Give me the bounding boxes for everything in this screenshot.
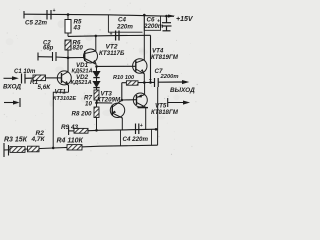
svg-text:КТ3117Б: КТ3117Б: [99, 50, 125, 57]
svg-text:820: 820: [73, 45, 84, 52]
svg-text:4,7К: 4,7К: [31, 136, 46, 143]
resistor R6: [65, 40, 71, 58]
capacitor C1: [22, 74, 34, 84]
diode VD2: [93, 82, 99, 91]
svg-text:C4 220m: C4 220m: [123, 136, 149, 143]
wire: bootstrap column down to output node: [150, 35, 152, 82]
svg-text:+15V: +15V: [176, 16, 194, 23]
terminal: input return arrow: [4, 98, 20, 107]
svg-text:+: +: [157, 19, 160, 25]
transistor VT3: [110, 100, 124, 130]
node: VT4 collector to +15V rail junction: [143, 14, 146, 17]
terminal +15V: [168, 15, 175, 18]
resistor R7: [94, 90, 99, 100]
resistor R4: [67, 145, 82, 150]
node tick: top-left rail end: [23, 11, 25, 19]
wire: VT1 collector column: [67, 58, 69, 72]
svg-text:КД521А: КД521А: [71, 80, 92, 86]
svg-text:R4 110К: R4 110К: [57, 137, 84, 144]
node: C6 to +15V rail junction: [165, 15, 168, 18]
svg-text:43: 43: [73, 25, 81, 32]
wire: lower return line: [97, 129, 158, 130]
svg-text:C5 22m: C5 22m: [25, 20, 48, 27]
node: output: [143, 81, 146, 84]
wire: bootstrap line from R5/R6 junction to C4 and corner: [68, 35, 151, 82]
resistor R10: [126, 81, 138, 85]
diode VD1: [93, 66, 99, 81]
label box C6: [144, 15, 160, 30]
svg-text:+: +: [140, 123, 143, 129]
capacitor C7: [155, 78, 184, 87]
node: R5 to +15V rail junction: [67, 13, 70, 16]
terminal: output return arrow: [168, 98, 184, 107]
svg-text:10: 10: [85, 101, 92, 108]
transistor VT2: [84, 36, 98, 65]
svg-text:R10 100: R10 100: [113, 75, 135, 81]
svg-text:+: +: [53, 8, 56, 14]
capacitor C6: [162, 16, 172, 31]
svg-text:68p: 68p: [43, 46, 54, 52]
transistor VT1: [53, 71, 71, 148]
wire: +15V top rail: [24, 14, 174, 16]
svg-text:220m: 220m: [116, 24, 133, 31]
wire: C7 right plate down to ground rail: [157, 87, 159, 145]
svg-text:R9 43: R9 43: [61, 124, 78, 131]
resistor R5: [65, 15, 71, 37]
svg-text:КТ818ГМ: КТ818ГМ: [151, 109, 179, 116]
wire: VT3 collector to VT5 base: [122, 99, 137, 101]
svg-text:+: +: [149, 77, 152, 83]
label box C4 (top): [108, 15, 142, 32]
capacitor C4 (output shunt): [136, 124, 139, 135]
label box C4 (bottom): [121, 129, 152, 146]
svg-text:R3 15К: R3 15К: [4, 136, 28, 143]
transistor VT4: [133, 15, 147, 83]
transistor VT5: [133, 83, 148, 130]
capacitor C5: [47, 10, 51, 20]
svg-text:C1 10m: C1 10m: [14, 69, 36, 75]
svg-text:КТ209М: КТ209М: [97, 97, 121, 104]
capacitor C2: [38, 52, 68, 61]
svg-text:КТ3102Е: КТ3102Е: [53, 96, 76, 102]
resistor R8: [94, 107, 99, 118]
svg-text:R8 200: R8 200: [72, 111, 93, 118]
resistor R9: [69, 127, 97, 135]
svg-text:2200m: 2200m: [143, 23, 164, 30]
wire: bottom ground rail: [4, 145, 158, 150]
svg-text:ВЫХОД: ВЫХОД: [170, 87, 195, 94]
resistor R1: [33, 75, 46, 81]
capacitor C4 (bootstrap): [116, 31, 119, 41]
svg-text:КТ819ГМ: КТ819ГМ: [151, 54, 179, 61]
wire: VT2 emitter to VT4 base: [95, 65, 98, 68]
svg-text:2200m: 2200m: [160, 74, 179, 80]
svg-text:VT1: VT1: [55, 89, 67, 96]
paper background: [0, 0, 200, 160]
wire: VT2 base node: [67, 56, 70, 59]
svg-text:+: +: [110, 32, 113, 38]
node tick: bottom-left terminal bars: [3, 143, 5, 157]
svg-text:ВХОД: ВХОД: [3, 84, 21, 91]
resistor R3: [10, 147, 25, 153]
node: bias node to VT3 base: [95, 102, 98, 105]
terminal: output arrow: [182, 80, 189, 84]
resistor R2: [28, 146, 40, 152]
svg-text:5,6К: 5,6К: [38, 84, 52, 91]
terminal: input arrow: [4, 77, 14, 79]
node: VT1 emitter branch to ground rail junction: [52, 147, 55, 150]
svg-text:C4: C4: [118, 17, 126, 24]
